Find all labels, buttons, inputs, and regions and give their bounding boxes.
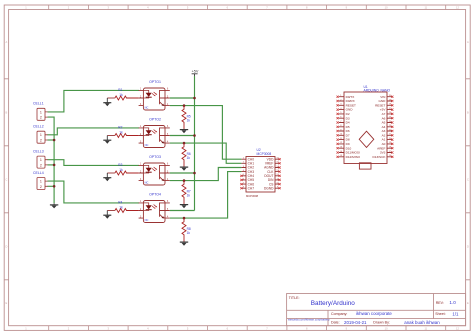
frame top ticks — [49, 5, 446, 10]
title block row divider 1 — [287, 309, 466, 311]
svg-text:D12/MISO: D12/MISO — [346, 155, 361, 159]
svg-text:1: 1 — [40, 110, 42, 114]
svg-text:B: B — [467, 111, 469, 115]
ground R1 — [103, 98, 111, 106]
OPTO3 — [139, 155, 170, 185]
connector CELL1 — [37, 108, 48, 120]
wire CELL2 pin2 to bus — [48, 139, 55, 141]
U2 pin numbers right 16-9 — [276, 158, 279, 189]
resistor R5 — [182, 106, 191, 130]
U2 no-connect marks right pins — [279, 158, 281, 189]
U1 right pin names — [372, 95, 386, 159]
ground R8 — [180, 242, 188, 246]
junction rail / OPTO2 collector — [193, 134, 196, 137]
svg-text:NC: NC — [145, 143, 149, 147]
IC U2 MCP3008 — [240, 148, 280, 198]
wire CELL3 pin2 to bus — [48, 164, 55, 166]
wire CELL3 pin1 to OPTO3 anode — [48, 160, 140, 166]
svg-text:1k: 1k — [119, 168, 123, 172]
svg-text:CELL1: CELL1 — [33, 102, 44, 106]
svg-text:NC: NC — [145, 180, 149, 184]
svg-text:MCP3008: MCP3008 — [257, 152, 272, 156]
junction rail / OPTO1 collector — [193, 97, 196, 100]
U2 body — [246, 157, 275, 193]
svg-text:R2: R2 — [118, 125, 122, 129]
frame bottom ticks — [49, 326, 446, 331]
connector CELL4 — [37, 178, 48, 190]
svg-text:E: E — [6, 301, 8, 305]
svg-text:2: 2 — [40, 163, 42, 167]
U1 diamond mark — [359, 131, 374, 147]
resistor R1 — [107, 88, 138, 100]
ground R7 — [180, 205, 188, 209]
svg-text:D13/SCK: D13/SCK — [372, 155, 386, 159]
junction OPTO3 emitter / R7 — [183, 179, 186, 182]
wire OPTO2 emitter to MCP CH1 — [170, 143, 242, 163]
svg-text:R4: R4 — [118, 200, 122, 204]
junction OPTO1 emitter / R5 — [183, 104, 186, 107]
U1 body — [344, 92, 387, 164]
ground R6 — [180, 167, 188, 171]
wire OPTO2 collector to +5V rail — [170, 135, 195, 137]
svg-text:A: A — [6, 40, 8, 44]
wire OPTO1 collector to +5V rail — [170, 97, 195, 99]
svg-text:1k: 1k — [119, 131, 123, 135]
ground R4 — [103, 211, 111, 219]
U2 left pin names CH0-CH7 — [248, 157, 255, 190]
svg-text:1.0: 1.0 — [449, 300, 456, 305]
svg-text:OPTO4: OPTO4 — [149, 192, 161, 196]
svg-text:D: D — [467, 245, 469, 249]
U2 no-connect marks CH4-CH7 — [240, 175, 242, 190]
junction cell bus / CELL2 — [53, 139, 56, 142]
svg-text:2: 2 — [40, 139, 42, 143]
svg-text:C: C — [467, 178, 469, 182]
frame right ticks — [466, 79, 471, 280]
U2 right pin names — [264, 157, 274, 190]
svg-text:Date:: Date: — [331, 320, 340, 324]
svg-text:CELL3: CELL3 — [33, 149, 44, 153]
svg-text:DGND: DGND — [264, 186, 274, 190]
svg-text:Drawn By:: Drawn By: — [373, 320, 390, 324]
svg-text:1/1: 1/1 — [452, 311, 459, 316]
junction OPTO4 emitter / R8 — [183, 217, 186, 220]
svg-text:1k: 1k — [119, 93, 123, 97]
IC U1 ARDUINO NANO — [337, 85, 394, 169]
svg-text:1: 1 — [40, 180, 42, 184]
title block row divider 2 — [287, 318, 466, 320]
svg-text:TITLE:: TITLE: — [289, 296, 300, 300]
svg-text:2: 2 — [40, 185, 42, 189]
ground R3 — [103, 173, 111, 181]
ground R5 — [180, 130, 188, 134]
U1 pin numbers right 30-16 — [389, 95, 392, 157]
svg-text:B: B — [6, 111, 8, 115]
U1 left pin names — [346, 95, 361, 159]
wire CELL1 pin1 to OPTO1 anode — [48, 90, 140, 112]
title block vertical divider url cell — [327, 310, 329, 325]
U1 pin numbers left 1-15 — [340, 95, 343, 157]
connector CELL3 — [37, 156, 48, 168]
svg-text:R1: R1 — [118, 88, 122, 92]
svg-text:CELL4: CELL4 — [33, 171, 44, 175]
svg-text:1k: 1k — [187, 194, 191, 198]
frame left ticks — [4, 79, 8, 280]
ground R2 — [103, 136, 111, 144]
U1 no-connect marks right — [391, 96, 393, 158]
U2 left pin stubs — [241, 159, 246, 188]
svg-text:R3: R3 — [118, 163, 122, 167]
connector CELL2 — [37, 131, 48, 143]
svg-text:1k: 1k — [187, 119, 191, 123]
OPTO4 — [139, 192, 170, 222]
ground cell bus — [50, 203, 58, 208]
svg-text:ikhwan coorporate: ikhwan coorporate — [356, 311, 392, 316]
svg-text:E: E — [467, 301, 469, 305]
CELL CONNECTORS — [33, 102, 48, 190]
wire CELL4 pin2 to bus — [48, 185, 55, 187]
svg-text:2019-04-21: 2019-04-21 — [344, 320, 367, 325]
wire cell ground bus — [48, 117, 55, 203]
svg-text:OPTO2: OPTO2 — [149, 117, 161, 121]
svg-text:1: 1 — [40, 133, 42, 137]
wire OPTO3 emitter to MCP CH2 — [170, 168, 242, 181]
resistor R7 — [182, 181, 191, 205]
svg-text:MCP3008: MCP3008 — [246, 194, 258, 198]
svg-text:Battery/Arduino: Battery/Arduino — [311, 300, 355, 307]
svg-text:easyeda.com/ikhwan.corp/batter: easyeda.com/ikhwan.corp/battery — [288, 317, 330, 321]
resistor R3 — [107, 163, 138, 175]
U1 right pin stubs — [387, 97, 392, 157]
wire +5V rail — [194, 76, 196, 211]
junction cell bus / CELL3 — [53, 164, 56, 167]
svg-text:OPTO1: OPTO1 — [149, 80, 161, 84]
wire OPTO3 collector to +5V rail — [170, 172, 195, 174]
power +5V — [192, 69, 199, 76]
svg-text:1k: 1k — [187, 231, 191, 235]
svg-text:NC: NC — [145, 218, 149, 222]
resistor R2 — [107, 125, 138, 137]
wire CELL2 pin1 to OPTO2 anode — [48, 128, 140, 135]
wire CELL4 pin1 to OPTO4 anode — [48, 181, 140, 203]
wire OPTO4 emitter to MCP CH3 — [170, 172, 242, 219]
OPTO2 — [139, 117, 170, 147]
title block vertical divider REV column — [433, 294, 435, 319]
svg-text:1: 1 — [40, 158, 42, 162]
U2 pin numbers left 1-8 — [243, 158, 245, 189]
svg-text:1k: 1k — [119, 206, 123, 210]
svg-text:Sheet:: Sheet: — [435, 312, 445, 316]
svg-text:1k: 1k — [187, 156, 191, 160]
U1 no-connect marks left — [337, 96, 339, 158]
svg-text:+5V: +5V — [192, 69, 199, 73]
svg-text:OPTO3: OPTO3 — [149, 155, 161, 159]
svg-text:REV:: REV: — [436, 301, 444, 305]
junction rail / OPTO3 collector — [193, 172, 196, 175]
junction cell bus / CELL4 — [53, 185, 56, 188]
OPTO1 — [139, 80, 170, 110]
svg-text:A: A — [467, 40, 469, 44]
title block outline — [287, 294, 466, 326]
wire OPTO4 collector to +5V rail — [170, 210, 195, 212]
U2 right pin stubs — [275, 159, 280, 188]
svg-text:Company:: Company: — [331, 312, 347, 316]
svg-text:CH7: CH7 — [248, 186, 255, 190]
U1 usb connector rect — [359, 163, 371, 169]
svg-text:CELL2: CELL2 — [33, 125, 44, 129]
svg-text:2: 2 — [40, 116, 42, 120]
svg-text:NC: NC — [145, 105, 149, 109]
TITLE BLOCK — [287, 294, 466, 326]
junction OPTO2 emitter / R6 — [183, 142, 186, 145]
svg-text:anak buah ikhwan: anak buah ikhwan — [404, 320, 440, 325]
svg-text:C: C — [5, 178, 7, 182]
resistor R4 — [107, 200, 138, 212]
wire OPTO1 emitter to MCP CH0 — [170, 106, 242, 160]
svg-text:D: D — [5, 245, 7, 249]
U1 left pin stubs — [339, 97, 344, 157]
resistor R6 — [182, 143, 191, 167]
resistor R8 — [182, 218, 191, 242]
